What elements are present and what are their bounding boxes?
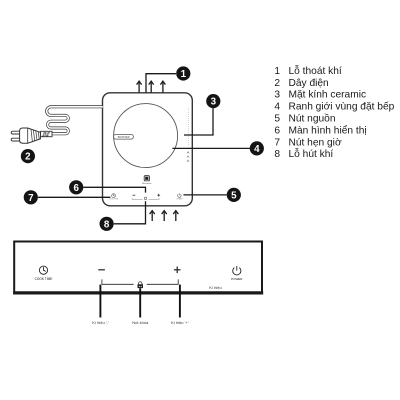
- plug body: [20, 128, 41, 143]
- panel clock icon: [39, 266, 47, 274]
- cooktop body: [103, 93, 193, 206]
- callout line 6: [83, 187, 145, 192]
- svg-text:5: 5: [231, 190, 237, 201]
- panel power icon: [233, 266, 241, 275]
- svg-text:1: 1: [181, 69, 187, 80]
- cooking zone circle (node 4 target): [114, 104, 178, 168]
- svg-text:POWER: POWER: [176, 198, 183, 200]
- cord-break box with zigzag: [41, 131, 52, 136]
- callout circle 5: [227, 188, 241, 202]
- svg-text:2: 2: [274, 78, 280, 89]
- control strip: minus: [133, 194, 136, 196]
- power cord serpentine: [47, 107, 103, 134]
- bottom vent arrows: [150, 211, 179, 221]
- callout circle 1: [176, 66, 190, 80]
- svg-text:Nút khóa: Nút khóa: [132, 320, 149, 325]
- svg-text:7: 7: [274, 137, 280, 148]
- control strip: plus: [157, 194, 160, 197]
- plug prongs: [11, 131, 22, 141]
- callout circle 8: [100, 217, 114, 231]
- svg-text:Kí hiệu '-': Kí hiệu '-': [92, 320, 109, 325]
- svg-text:2: 2: [25, 152, 31, 163]
- callout circle 2: [21, 149, 35, 163]
- callout line 8: [114, 201, 146, 224]
- svg-text:Nút hẹn giờ: Nút hẹn giờ: [289, 137, 342, 148]
- callout circle 6: [69, 180, 83, 194]
- svg-text:3: 3: [274, 90, 280, 101]
- svg-text:COOK TIME: COOK TIME: [109, 199, 118, 201]
- callout circle 7: [24, 190, 38, 204]
- callout line 1: [146, 74, 176, 93]
- svg-text:7: 7: [28, 193, 34, 204]
- callout stem plus: [179, 285, 181, 318]
- svg-text:Kí hiệu '+': Kí hiệu '+': [171, 320, 189, 325]
- svg-text:COOK TIME: COOK TIME: [35, 277, 53, 281]
- svg-text:8: 8: [104, 219, 110, 230]
- callout line 3: [184, 108, 213, 135]
- panel thick bottom border: [13, 291, 263, 294]
- svg-text:4: 4: [274, 102, 280, 113]
- svg-text:Lỗ hút khí: Lỗ hút khí: [289, 147, 334, 160]
- lock icon: [138, 282, 144, 288]
- plug strain-relief ribs: [31, 129, 39, 142]
- dashed marking near right edge: [187, 108, 189, 146]
- control strip: timer clock icon: [112, 194, 116, 198]
- control panel (bottom): [14, 242, 262, 294]
- control strip: bracket lines: [132, 198, 159, 199]
- control strip: power icon: [178, 193, 182, 197]
- tiny vent glyphs (A A A): [187, 151, 189, 161]
- callout circle 3: [206, 94, 220, 108]
- svg-text:Electrolux: Electrolux: [142, 182, 152, 185]
- svg-text:6: 6: [73, 183, 79, 194]
- svg-text:3: 3: [211, 97, 217, 108]
- stem labels: [92, 320, 188, 325]
- svg-text:Nút nguồn: Nút nguồn: [289, 113, 336, 125]
- svg-text:8: 8: [274, 149, 280, 160]
- svg-text:5: 5: [274, 114, 280, 125]
- svg-text:4: 4: [254, 144, 260, 155]
- panel minus: [98, 269, 105, 271]
- svg-text:6: 6: [274, 125, 280, 136]
- callout circle 4: [250, 141, 264, 155]
- svg-text:Lỗ thoát khí: Lỗ thoát khí: [289, 64, 342, 77]
- svg-text:Dây điện: Dây điện: [289, 78, 329, 89]
- Electrolux logo: [142, 176, 152, 185]
- control strip: display icon (node 6 target): [145, 197, 147, 199]
- callout stem minus: [99, 285, 101, 318]
- svg-text:Mặt kính ceramic: Mặt kính ceramic: [289, 90, 367, 101]
- top vent arrows: [137, 81, 166, 92]
- bracket under minus/plus: [102, 279, 178, 284]
- booster pill label: [114, 134, 134, 139]
- panel plus: [174, 267, 181, 274]
- svg-text:Màn hình hiển thị: Màn hình hiển thị: [289, 124, 367, 136]
- callout line 4: [172, 147, 249, 149]
- legend list: [274, 64, 394, 160]
- svg-text:BOOSTER: BOOSTER: [118, 136, 130, 139]
- svg-text:Ranh giới vùng đặt bếp: Ranh giới vùng đặt bếp: [289, 101, 395, 113]
- callout stem lock: [139, 288, 141, 317]
- svg-text:1: 1: [274, 66, 280, 77]
- svg-text:POWER: POWER: [231, 277, 243, 281]
- callout line 5: [184, 194, 227, 196]
- callout line 7: [38, 196, 110, 198]
- svg-text:Kí hiệu: Kí hiệu: [209, 285, 221, 290]
